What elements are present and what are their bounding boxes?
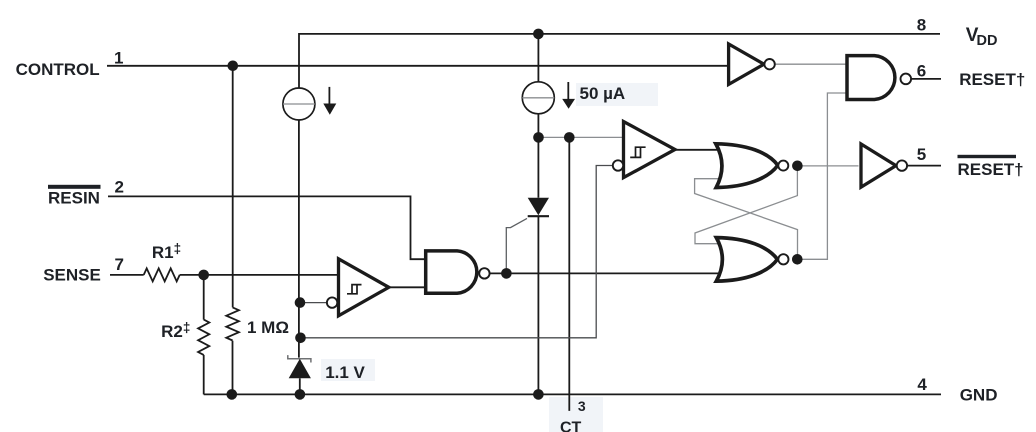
wire SCR cathode to GND rail [537,216,539,394]
wire zener anode to GND rail [299,378,301,394]
current source I1 chord [283,103,315,105]
svg-text:6: 6 [917,62,926,81]
buffer U8 triangle [861,144,896,187]
NAND U1 output bubble [479,268,489,278]
svg-text:R2‡: R2‡ [161,320,190,341]
Schmitt comparator U3 triangle [624,122,676,178]
junction dot reference node at 1.1V wire [295,333,306,344]
wire grey SCR gate from NAND U1 output node [506,218,527,269]
wire grey latch feedback NOR U4 output to NOR U5 upper input [695,168,797,244]
NOR U5 output bubble [778,254,788,264]
svg-text:SENSE: SENSE [43,265,101,284]
NAND gate U1 body [426,251,477,293]
svg-text:CONTROL: CONTROL [16,60,100,79]
svg-text:8: 8 [917,15,926,34]
wire current source I2 bottom lead to SCR anode [537,114,539,198]
wire R2 bottom lead [203,355,205,395]
svg-text:GND: GND [960,386,998,405]
zener diode 1.1V bar [288,355,311,362]
wire Schmitt U2 output to NAND U1 input [389,286,426,288]
svg-text:2: 2 [115,178,124,197]
Schmitt U2 input bubble [327,297,337,307]
Schmitt U2 hysteresis glyph [347,285,362,294]
svg-text:RESIN: RESIN [48,189,100,208]
junction dot NOR U5 output node [792,254,803,265]
junction dot NOR U4 output node [792,161,803,172]
current source I2 circle [522,82,554,114]
current source I1 arrow [328,87,330,104]
zener diode 1.1V triangle [289,359,311,379]
wire CONTROL (pin 1) horizontal [107,65,729,67]
junction dot timing node CT [564,132,575,143]
junction dot GND rail at SCR [533,389,544,400]
inverter U6 bubble [764,59,774,69]
wire grey timing node to Schmitt U3 input [539,136,623,138]
junction dot NAND U1 output node [501,268,512,279]
inverter U6 triangle [729,44,764,84]
svg-text:RESET†: RESET† [958,160,1024,179]
junction dot GND rail at 1M [227,389,238,400]
junction dot GND rail at zener [295,389,306,400]
wire RESIN (pin 2) to NAND U1 top input [108,196,426,259]
wire current source I2 top lead [537,34,539,82]
NOR gate U4 body [716,144,778,188]
wire SENSE (pin 7) lead to R1 [110,274,144,276]
wire pin 5 RESET-bar output [907,165,941,167]
junction dot SENSE node [198,270,209,281]
svg-text:50 µA: 50 µA [580,84,626,103]
svg-text:1: 1 [114,48,123,67]
wire grey latch feedback NOR U5 output to NOR U4 lower input [695,179,798,256]
wire NAND U1 output to NOR U5 input [490,272,724,274]
resistor R2 zigzag [198,320,209,355]
current source I2 chord [522,97,554,99]
resistor R1 zigzag [144,268,180,281]
junction dot timing node left [533,132,544,143]
svg-text:R1‡: R1‡ [152,241,181,262]
label RESET-bar overline pin 5 [958,155,1017,158]
wire reference to Schmitt U3 inverting input [301,166,613,338]
Schmitt comparator U2 triangle [339,259,389,316]
wire CONTROL branch down to 1M resistor [232,66,234,308]
NOR U4 output bubble [778,161,788,171]
svg-text:5: 5 [917,145,926,164]
junction dot CONTROL node [228,61,239,72]
wire grey inverter U6 output to NAND U7 input [775,63,847,65]
svg-text:1 MΩ: 1 MΩ [247,318,289,337]
svg-text:3: 3 [578,398,586,414]
wire R1 to Schmitt comparator input [180,274,339,276]
current source I1 circle [283,88,315,120]
svg-text:DD: DD [977,33,998,49]
wire CT (pin 3) vertical [568,137,570,411]
wire current source I1 bottom lead down to 1.1V reference node [298,120,300,358]
svg-text:CT: CT [560,420,582,432]
wire grey NOR U4 output to buffer U8 input [797,165,858,167]
Schmitt U3 input bubble [613,160,623,170]
wire Schmitt U3 output to NOR U4 input [675,149,722,151]
svg-text:RESET†: RESET† [959,70,1025,89]
svg-text:1.1 V: 1.1 V [325,363,365,382]
wire reference to Schmitt U2 inverting input [300,302,327,304]
svg-text:4: 4 [917,375,927,394]
svg-text:7: 7 [115,255,124,274]
wire GND bottom rail (pin 4) [204,393,941,395]
label RESIN overline [48,185,101,189]
wire pin 6 RESET output [911,78,941,80]
wire 1M resistor bottom lead to GND rail [232,341,234,395]
wire SENSE node down to R2 [203,275,205,320]
Schmitt U3 hysteresis glyph [630,147,645,157]
wire VDD top rail (pin 8) [299,34,940,88]
wire grey NOR U5 output up to NAND U7 lower input [797,93,847,259]
SCR cathode bar [528,215,549,217]
junction dot VDD rail at I2 [533,29,544,40]
current source I2 arrow 50 uA [567,82,569,100]
NAND gate U7 body [847,56,895,100]
buffer U8 bubble [897,160,907,170]
SCR discharge device triangle [528,198,549,216]
NOR gate U5 body [716,238,777,282]
junction dot reference node at Schmitt U2 [295,297,306,308]
NAND U7 output bubble [901,74,912,85]
resistor 1 Mohm zigzag [226,307,239,340]
